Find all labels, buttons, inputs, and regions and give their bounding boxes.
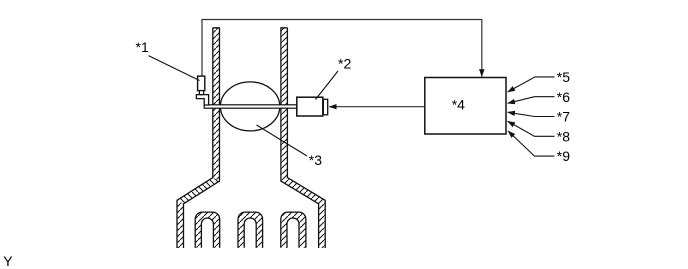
- intake runner tube 3 (inverted U, hatched): [281, 212, 306, 248]
- throttle valve plate *3 (ellipse): [220, 82, 279, 131]
- svg-text:*2: *2: [338, 55, 351, 71]
- arrow *8 into box: [508, 121, 555, 136]
- throttle position sensor *1 body: [198, 76, 205, 91]
- sensor bracket (L-shape): [196, 95, 208, 105]
- throttle motor flange: [323, 99, 327, 115]
- arrow *7 into box: [508, 112, 555, 116]
- leader line for *2: [316, 71, 339, 100]
- throttle shaft (white band over ellipse and walls): [204, 105, 297, 108]
- leader line for *3: [257, 125, 308, 156]
- svg-text:*1: *1: [136, 39, 149, 55]
- svg-text:*4: *4: [452, 97, 465, 113]
- wire from sensor *1 up and across to controller box, arrow down into box top: [202, 20, 482, 77]
- svg-text:*5: *5: [557, 69, 570, 85]
- arrow from box to throttle motor *2: [329, 106, 425, 108]
- svg-text:*3: *3: [309, 152, 322, 168]
- intake runner tube 1 (inverted U, hatched): [195, 212, 220, 248]
- arrow *6 into box: [508, 97, 555, 104]
- svg-text:*8: *8: [557, 128, 570, 144]
- svg-text:*7: *7: [557, 109, 570, 125]
- right pipe wall (hatched): [281, 28, 325, 248]
- svg-text:Y: Y: [3, 253, 13, 269]
- leader line for *1: [149, 56, 200, 81]
- arrow *5 into box: [508, 77, 555, 92]
- intake runner tube 2 (inverted U, hatched): [238, 212, 263, 248]
- throttle motor *2 body: [297, 97, 323, 116]
- svg-text:*6: *6: [557, 89, 570, 105]
- svg-text:*9: *9: [557, 148, 570, 164]
- sensor nub: [199, 91, 203, 95]
- arrow *9 into box: [508, 131, 555, 156]
- left pipe wall (hatched): [177, 28, 220, 248]
- controller box *4: [425, 78, 506, 135]
